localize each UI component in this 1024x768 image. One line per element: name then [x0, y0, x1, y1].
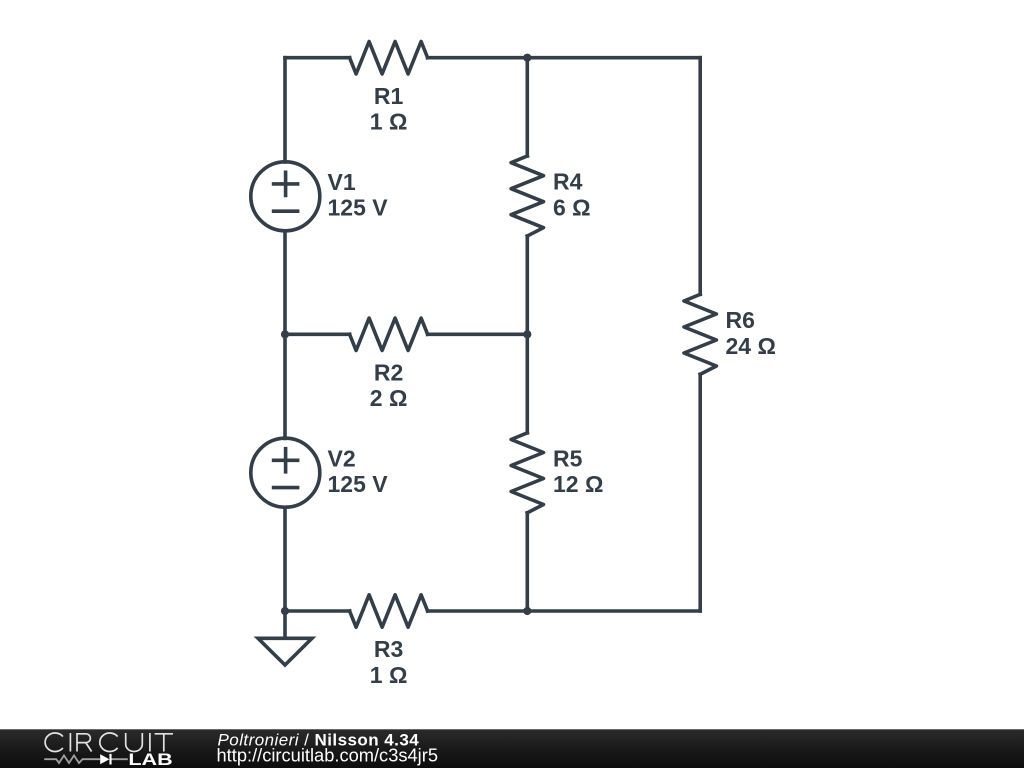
wire mid node to V2	[283, 334, 287, 438]
resistor R4	[511, 156, 543, 236]
resistor R6	[684, 294, 716, 374]
wire right rail top to R6	[698, 58, 702, 295]
logo diode	[100, 754, 109, 764]
wire R4 to mid node	[525, 236, 529, 334]
svg-text:R4: R4	[553, 169, 583, 195]
wire top row right segment	[428, 56, 701, 60]
svg-text:12 Ω: 12 Ω	[553, 471, 603, 497]
svg-text:http://circuitlab.com/c3s4jr5: http://circuitlab.com/c3s4jr5	[217, 744, 439, 765]
svg-text:6 Ω: 6 Ω	[553, 195, 591, 221]
svg-text:24 Ω: 24 Ω	[726, 333, 776, 359]
ground stub	[283, 611, 287, 638]
svg-text:1 Ω: 1 Ω	[370, 662, 408, 688]
node dot mid-center	[523, 330, 531, 338]
node dot top	[523, 54, 531, 62]
wire top left rail to V1	[283, 58, 287, 162]
svg-text:125 V: 125 V	[328, 471, 389, 497]
svg-text:1 Ω: 1 Ω	[370, 109, 408, 135]
wire mid rail top node to R4	[525, 58, 529, 156]
svg-text:R2: R2	[374, 360, 403, 386]
wire top row left segment	[285, 56, 350, 60]
svg-text:LAB: LAB	[128, 750, 172, 768]
wire mid rail mid node to R5	[525, 334, 529, 433]
V1 minus sign	[274, 209, 298, 213]
svg-text:R6: R6	[726, 307, 755, 333]
svg-text:R5: R5	[553, 445, 583, 471]
svg-text:V1: V1	[328, 169, 356, 195]
svg-text:V2: V2	[328, 445, 356, 471]
voltage source V1 circle	[251, 162, 320, 231]
wire V2 to bottom node	[283, 507, 287, 611]
voltage source V2 circle	[251, 438, 320, 507]
V2 minus sign	[274, 486, 298, 490]
wire mid row left	[285, 332, 350, 336]
svg-text:125 V: 125 V	[328, 195, 389, 221]
V1 plus sign	[274, 172, 298, 195]
svg-text:2 Ω: 2 Ω	[370, 385, 408, 411]
svg-text:R3: R3	[374, 636, 403, 662]
V2 plus sign	[274, 449, 298, 472]
resistor R5	[511, 433, 543, 513]
wire bottom row right	[428, 609, 701, 613]
node dot mid-left	[281, 330, 289, 338]
resistor R1	[350, 42, 428, 74]
logo CIRCUIT	[45, 733, 173, 752]
logo resistor-diode line	[44, 755, 128, 763]
node dot bottom-center	[523, 607, 531, 615]
wire R5 to bottom node	[525, 513, 529, 611]
ground triangle	[258, 638, 312, 665]
wire R6 to bottom row	[698, 374, 702, 611]
wire V1 to mid node	[283, 231, 287, 334]
wire mid row right	[428, 332, 528, 336]
svg-text:R1: R1	[374, 83, 404, 109]
resistor R3	[350, 595, 428, 627]
node dot bottom-left	[281, 607, 289, 615]
wire bottom row left	[285, 609, 350, 613]
resistor R2	[350, 318, 428, 350]
